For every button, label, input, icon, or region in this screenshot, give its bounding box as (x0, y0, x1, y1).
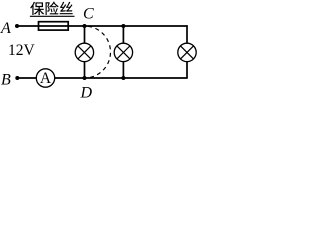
lamp L3 (178, 43, 196, 61)
wire top rail A to fuse (17, 25, 39, 27)
svg-text:B: B (1, 72, 11, 89)
node B terminal (15, 76, 19, 80)
wire lamp L2 branch vertical (122, 26, 124, 78)
wire lamp L1 branch vertical C to D (84, 26, 86, 78)
fuse F1 (39, 22, 69, 30)
lamp L1 (75, 43, 93, 61)
svg-text:D: D (80, 85, 93, 102)
node C junction (83, 24, 87, 28)
svg-text:A: A (40, 70, 52, 87)
junction lamp L2 top (121, 24, 125, 28)
wire node C to lamp L2 top junction (85, 25, 124, 27)
wire node D to lamp L2 bottom junction (85, 77, 124, 79)
node A terminal (15, 24, 19, 28)
wire ammeter to node D (50, 77, 85, 79)
ammeter A1 (36, 69, 54, 87)
svg-text:12V: 12V (8, 42, 36, 59)
wire right side vertical through lamp L3 (186, 25, 188, 78)
wire bottom rail B to ammeter (17, 77, 40, 79)
svg-text:A: A (0, 20, 11, 37)
junction lamp L2 bottom (121, 76, 125, 80)
lamp L2 (114, 43, 132, 61)
dashed wire arc from C to D (85, 26, 111, 78)
underline of fuse label (30, 15, 75, 17)
label 保险丝 (fuse) drawn as glyph paths (30, 2, 72, 16)
wire through fuse and on to node C (39, 25, 85, 27)
wire lamp L2 bottom junction to bottom-right corner (123, 77, 187, 79)
node D junction (83, 76, 87, 80)
svg-text:C: C (83, 6, 94, 23)
wire lamp L2 top junction to top-right corner (123, 25, 187, 27)
